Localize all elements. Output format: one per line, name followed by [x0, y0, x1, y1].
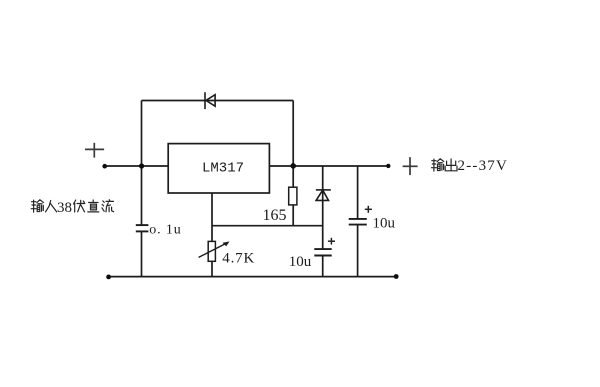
svg-text:38: 38 — [57, 200, 72, 216]
svg-text:4.7K: 4.7K — [222, 250, 255, 266]
svg-text:o. 1u: o. 1u — [149, 223, 182, 238]
svg-text:10u: 10u — [289, 254, 312, 270]
svg-text:165: 165 — [263, 207, 287, 224]
svg-text:10u: 10u — [373, 216, 396, 232]
svg-text:2--37V: 2--37V — [458, 158, 509, 174]
svg-text:LM317: LM317 — [202, 160, 244, 176]
